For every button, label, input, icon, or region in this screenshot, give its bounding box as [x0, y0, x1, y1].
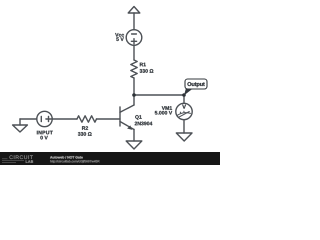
- Q1 emitter arrowhead: [127, 125, 132, 129]
- footer logo CIRCUIT: [9, 155, 32, 159]
- wire R2 to Q1 base: [97, 118, 121, 120]
- wire V1 bottom to R1 top: [133, 45, 135, 60]
- Q1 collector vertical wire: [133, 95, 135, 105]
- V1 plus sign: [131, 40, 136, 42]
- V2 minus bar (rotated): [40, 116, 42, 121]
- footer title: [50, 156, 83, 159]
- VM1 meter tick mid: [183, 111, 185, 112]
- ground at input source: [13, 125, 28, 132]
- label Vcc: [115, 33, 124, 37]
- VM1 meter tick left: [179, 112, 181, 113]
- label Q1: [135, 115, 141, 120]
- V2 plus sign: [46, 118, 51, 120]
- label VM1: [162, 106, 172, 110]
- voltmeter V letter: [182, 105, 186, 109]
- voltage source V2 (INPUT) circle: [37, 111, 52, 126]
- junction dot collector node: [132, 93, 136, 97]
- transistor Q1 base bar: [119, 107, 121, 126]
- output flag box: [185, 79, 207, 89]
- footer CircuitLab logo traces: [2, 159, 24, 163]
- ground under Q1 emitter: [126, 141, 142, 149]
- label VM1 value 5.000 V: [155, 111, 172, 115]
- label Vcc value 5 V: [116, 37, 123, 41]
- V1 minus sign: [132, 33, 137, 35]
- ground under VM1: [176, 133, 192, 141]
- label R1: [140, 63, 146, 67]
- VM1 meter scale arc: [178, 113, 191, 116]
- junction dot output node: [182, 93, 186, 97]
- wire VCC arrow to V1 top: [133, 13, 135, 30]
- wire output node down to voltmeter: [183, 95, 185, 103]
- VCC supply arrow: [128, 7, 140, 14]
- wire R1 bottom to collector node: [133, 78, 135, 95]
- output flag leader wedge: [184, 89, 192, 96]
- Q1 emitter vertical wire: [133, 130, 135, 142]
- label R2: [82, 126, 88, 130]
- label INPUT value 0 V: [40, 136, 47, 140]
- footer logo LAB: [26, 160, 33, 162]
- VM1 meter needle: [179, 112, 190, 118]
- voltmeter VM1 circle: [176, 103, 192, 119]
- output flag text: [187, 82, 204, 87]
- resistor R2 zigzag: [77, 116, 97, 122]
- Q1 collector diagonal: [120, 105, 134, 112]
- wire collector node to output node: [134, 94, 184, 96]
- label R1 value 330 ohm: [140, 69, 154, 73]
- Q1 emitter diagonal: [120, 122, 134, 130]
- label R2 value 330 ohm: [78, 132, 92, 136]
- footer url: [50, 160, 99, 163]
- wire VM1 bottom to ground: [183, 120, 185, 133]
- footer bar: [0, 152, 220, 165]
- voltage source V1 (Vcc) circle: [126, 30, 142, 46]
- label INPUT: [37, 131, 53, 135]
- resistor R1 zigzag: [131, 60, 137, 78]
- label Q1 part 2N3904: [135, 122, 153, 126]
- wire V2 to R2: [52, 118, 77, 120]
- wire input ground vertical: [19, 119, 21, 125]
- wire input ground horizontal: [20, 118, 37, 120]
